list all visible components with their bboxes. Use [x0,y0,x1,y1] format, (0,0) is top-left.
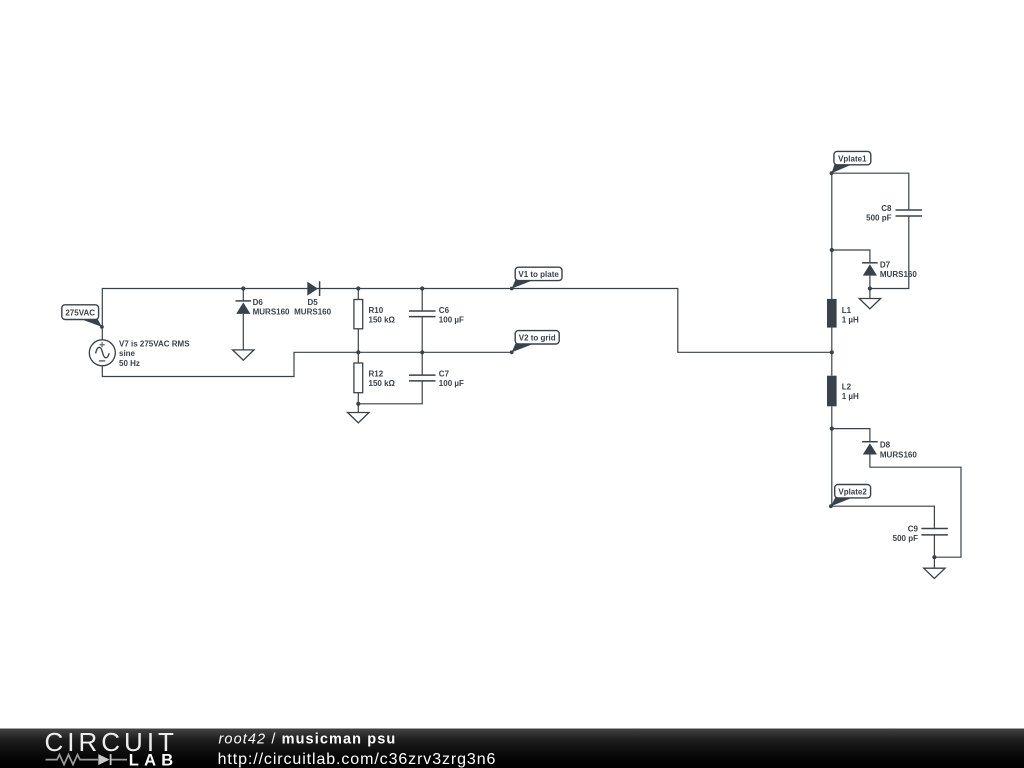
label C8 [866,204,892,223]
capacitor C7 [409,375,436,381]
svg-text:V2 to grid: V2 to grid [519,334,556,343]
wire between L1 and L2 [831,328,833,376]
svg-text:D8: D8 [880,441,891,450]
footer bar [0,729,1024,768]
node at D8 branch [830,427,834,431]
diode D5 [307,281,319,296]
svg-text:V7 is 275VAC RMS: V7 is 275VAC RMS [119,340,190,349]
net flag Vplate2 [829,485,871,509]
svg-text:C7: C7 [439,369,450,378]
wire R12 bottom lead to ground node [357,393,359,404]
svg-text:C9: C9 [908,524,919,533]
svg-text:1 µH: 1 µH [842,392,859,401]
svg-text:C6: C6 [439,306,450,315]
svg-text:L1: L1 [842,306,852,315]
wire C6 bottom lead [421,317,423,353]
capacitor C9 [921,529,948,535]
svg-text:LAB: LAB [129,751,179,768]
resistor R12 [354,363,363,393]
svg-text:sine: sine [119,349,136,358]
label R10 [369,306,396,325]
label D7 [880,261,917,280]
node at R12 bottom / C7 bottom [356,402,360,406]
voltage source V7 [89,340,115,366]
wire D7 bottom lead [869,276,871,289]
svg-text:MURS160: MURS160 [294,308,331,317]
svg-text:V1 to plate: V1 to plate [518,270,559,279]
inductor L2 [827,376,837,407]
wire C8 bottom lead to D7 bottom node [870,216,909,289]
node at R12 top [356,350,360,354]
label C7 [439,369,464,388]
net flag V1 to plate [510,267,562,290]
svg-text:100 µF: 100 µF [439,379,464,388]
svg-text:150 kΩ: 150 kΩ [369,379,396,388]
node at D6 top [241,286,245,290]
wire D7 branch [832,250,870,263]
footer logo schematic squiggle: wire [46,755,128,765]
wire L2 down to Vplate2 anchor [831,406,833,506]
svg-text:500 pF: 500 pF [893,534,918,543]
wire D7 ground stem [869,289,871,299]
capacitor C8 [896,210,923,216]
wire R12 top lead [357,352,359,363]
diode D6 [236,301,252,314]
node at D7 bottom [868,286,872,290]
node at L1 L2 junction [830,350,834,354]
svg-text:D6: D6 [253,298,264,307]
wire C9 ground stem [933,557,935,568]
wire D8 bottom lead right and down to C9 bottom node [870,455,961,558]
svg-text:C8: C8 [881,204,892,213]
label L2 [842,383,859,402]
svg-text:275VAC: 275VAC [65,308,95,317]
wire right rail Vplate1 down to L1 [831,173,833,299]
wire D6 bottom lead to ground [242,314,244,350]
label R12 [369,369,396,388]
ground below R12 [348,413,369,423]
node at R10 top [356,286,360,290]
svg-text:http://circuitlab.com/c36zrv3z: http://circuitlab.com/c36zrv3zrg3n6 [218,751,497,768]
footer logo diode [98,754,109,765]
svg-text:root42 / musicman psu: root42 / musicman psu [219,732,397,748]
wire C7 top lead [421,352,423,375]
inductor L1 [827,299,837,328]
wire C7 bottom lead to R12 bottom node [358,381,422,404]
label D8 [880,441,917,460]
svg-text:D7: D7 [880,261,891,270]
wire C6 top lead [421,289,423,312]
capacitor C6 [409,311,436,317]
ground below D7 [859,299,880,309]
svg-text:150 kΩ: 150 kΩ [369,315,396,324]
wire Vplate2 to C9 top [832,506,935,528]
wire R12 ground stem [357,404,359,413]
label D5 [294,298,331,317]
svg-text:MURS160: MURS160 [253,308,290,317]
svg-text:R10: R10 [369,306,384,315]
wire C9 bottom lead [933,535,935,557]
wire R10 bottom lead [357,329,359,353]
wire R10 top lead [357,289,359,300]
net flag 275VAC [62,305,104,329]
svg-text:L2: L2 [842,383,852,392]
svg-text:Vplate2: Vplate2 [838,487,867,496]
wire D8 branch [832,429,870,442]
ground below C9 [924,568,945,578]
ground below D6 [233,350,254,360]
svg-text:1 µH: 1 µH [842,315,859,324]
svg-text:R12: R12 [369,369,384,378]
net flag Vplate1 [830,151,871,175]
wire top rail from V7 top through D6, D5, R10, C6 to corner and down to mid rail [102,289,832,353]
resistor R10 [354,300,363,329]
svg-text:100 µF: 100 µF [439,315,464,324]
label C9 [893,524,919,543]
node at D7 branch [830,248,834,252]
svg-text:MURS160: MURS160 [880,450,917,459]
label L1 [842,306,859,325]
svg-text:D5: D5 [307,298,318,307]
svg-text:50 Hz: 50 Hz [119,359,140,368]
svg-text:Vplate1: Vplate1 [838,154,867,163]
node at C9 bottom [932,555,936,559]
diode D7 [862,263,878,276]
node at C6 top [420,286,424,290]
net flag V2 to grid [510,331,559,355]
wire D6 top lead [242,289,244,301]
label C6 [439,306,464,325]
svg-text:MURS160: MURS160 [880,270,917,279]
svg-text:500 pF: 500 pF [866,214,891,223]
label D6 [253,298,290,317]
diode D8 [862,442,878,455]
wire source bottom from V7 bottom right and up to mid rail [102,352,511,376]
wire Vplate1 to C8 top [832,173,909,210]
node at C7 top [420,350,424,354]
label V7 description [119,340,190,368]
